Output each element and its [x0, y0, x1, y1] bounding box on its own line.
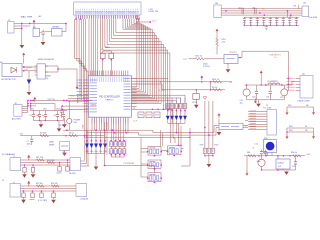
svg-text:C3: C3: [30, 115, 32, 117]
svg-text:C10: C10: [238, 8, 241, 10]
cap C20: [252, 85, 258, 100]
arrow j9: [27, 181, 30, 186]
wires J2 to regulator: [14, 24, 66, 29]
resistor R5 vertical: [216, 38, 219, 55]
label AC small: [0, 61, 3, 64]
svg-text:100n: 100n: [27, 143, 31, 145]
resistor R56: [291, 152, 301, 157]
label R8: [212, 79, 219, 81]
svg-text:J8 GPS: J8 GPS: [69, 173, 76, 175]
capacitor C7: [60, 111, 65, 121]
label 4N35 part: [46, 76, 52, 81]
svg-text:B1: B1: [230, 82, 233, 84]
svg-text:TX2: TX2: [183, 59, 188, 61]
wires U5 to J5 fan: [243, 121, 248, 128]
connector J1 (30-pin header): [74, 2, 142, 15]
MCU top pin labels: [91, 77, 128, 82]
resistor R13: [36, 183, 44, 187]
svg-text:74LVC1G: 74LVC1G: [229, 52, 237, 54]
svg-text:OPTO: OPTO: [192, 102, 198, 104]
vcc arrow u5: [218, 113, 221, 124]
svg-text:USB-B CONN: USB-B CONN: [298, 101, 311, 103]
wire U2 out: [62, 23, 67, 32]
J9 hang cap4: [51, 190, 56, 203]
svg-text:AC-DETECT IN: AC-DETECT IN: [2, 78, 17, 81]
label LT3 TEC: [38, 200, 48, 202]
svg-text:1u: 1u: [42, 115, 44, 117]
svg-text:WALL PWR: WALL PWR: [21, 15, 33, 18]
power VCC arrow: [33, 20, 36, 25]
svg-text:NC: NC: [305, 130, 308, 132]
capacitor C3: [30, 111, 36, 121]
bottom pin drops: [92, 122, 128, 141]
resistor R2: [40, 132, 49, 137]
wire corner j4: [298, 5, 300, 10]
connector J6 AC header: [12, 103, 22, 121]
svg-text:J6: J6: [15, 103, 17, 105]
rail y130: [87, 126, 219, 133]
dot r row: [65, 135, 87, 137]
wires box to opto: [22, 67, 37, 71]
J6 wires: [22, 101, 28, 113]
label PIC-RESET red: [124, 163, 136, 165]
label VCC at J1 right: [149, 21, 157, 23]
svg-text:PIC/RESET: PIC/RESET: [124, 163, 136, 165]
rail y132: [87, 128, 219, 136]
resistor pack RP2: [166, 98, 187, 109]
svg-text:C11: C11: [252, 8, 255, 10]
diode D2 inside box: [11, 67, 17, 73]
usb filter bottom rail: [247, 100, 285, 103]
bus wires J1 middle group to MCU top: [89, 19, 98, 76]
verticals feeding JB2: [178, 123, 182, 146]
resistor R10: [196, 58, 205, 61]
regulator U2 box: [52, 27, 63, 36]
rail y130 left ext: [63, 129, 87, 131]
label SCI HEADER: [2, 153, 15, 156]
svg-text:R10 1k: R10 1k: [196, 56, 202, 58]
test bracket TB1: [287, 105, 314, 111]
resistor R9: [213, 89, 222, 92]
usb filter rail: [245, 84, 293, 86]
wire VCC arrow stem: [33, 25, 35, 28]
node dots under J1: [75, 18, 140, 20]
svg-text:VER 0.1: VER 0.1: [105, 100, 114, 102]
bus wires J1 left group: [75, 19, 88, 166]
TB2 arrows: [286, 134, 316, 139]
MCU right pins: [132, 78, 137, 109]
svg-text:1 LP: 1 LP: [133, 121, 138, 123]
svg-text:C22: C22: [280, 97, 283, 99]
svg-text:R2 10k: R2 10k: [40, 132, 46, 134]
connector J7: [10, 158, 21, 171]
dots bus y109: [152, 108, 170, 110]
arrow reg left: [246, 171, 249, 176]
usb bus dots: [287, 78, 289, 91]
MCU bottom pin labels: [92, 118, 128, 123]
bus staircase J1 right group: [101, 19, 170, 109]
svg-text:10u: 10u: [36, 115, 39, 117]
LED row labels: [86, 150, 107, 152]
label A red: [160, 81, 162, 84]
label wall power: [21, 15, 42, 18]
MCU right pin labels: [124, 78, 131, 109]
cap C23 electrolytic: [257, 156, 266, 170]
vertical x104: [104, 122, 106, 166]
wire U6 in/out: [278, 156, 290, 159]
svg-text:4.7k: 4.7k: [222, 42, 226, 44]
MCU left outside net labels: [77, 80, 83, 95]
resistor R57: [247, 152, 256, 157]
cap row rails: [244, 11, 299, 25]
rail dots: [63, 100, 88, 102]
J7 hang cap2: [31, 164, 36, 178]
resistor R11: [36, 157, 44, 161]
svg-text:1k: 1k: [305, 126, 307, 128]
dot bypass: [204, 127, 210, 136]
svg-text:VCC 5V: VCC 5V: [48, 99, 56, 101]
J5 pin wires with red labels: [248, 111, 267, 129]
inductor L1: [268, 83, 280, 85]
svg-text:FB2: FB2: [247, 152, 250, 154]
label LM35: [49, 142, 55, 147]
ground G7: [192, 102, 199, 108]
label AC detect: [2, 78, 17, 81]
svg-text:10u: 10u: [240, 103, 243, 105]
vertical link AB: [210, 81, 212, 91]
capacitor C1: [40, 30, 45, 37]
LED row D4-D8: [85, 130, 107, 153]
wire net A: [165, 81, 232, 83]
label U4 red: [229, 52, 237, 54]
rail R row: [20, 135, 105, 137]
svg-text:R8 4.7k: R8 4.7k: [212, 79, 219, 81]
J7 hang cap3: [57, 162, 62, 173]
vcc arrow u4: [216, 29, 219, 39]
TB1 arrows: [286, 110, 316, 115]
jumper block JB1: [147, 146, 162, 156]
wire gnd drop: [21, 24, 23, 45]
MCU left long wires: [62, 96, 89, 111]
usb connector J10: [298, 73, 314, 102]
connector J2 power jack: [8, 20, 15, 33]
svg-text:VCC: VCC: [152, 21, 157, 23]
svg-text:R5.6: R5.6: [222, 39, 226, 41]
decoupling cap C8: [59, 105, 88, 127]
svg-text:C20: C20: [252, 96, 255, 98]
regulator U6 box: [276, 159, 290, 169]
ground G3: [27, 92, 32, 95]
AC detect input box: [2, 64, 22, 77]
label 5V0 red: [20, 134, 24, 136]
ground G2: [41, 37, 46, 46]
label 4N35 ISO: [38, 58, 54, 61]
arrow PWR detect: [76, 84, 79, 89]
vertical x190: [181, 128, 191, 166]
LED S1 box: [264, 140, 277, 153]
svg-text:C21: C21: [266, 96, 269, 98]
ground G13: [62, 153, 67, 156]
bypass rail: [204, 155, 214, 164]
resistor R12: [47, 160, 55, 164]
rail y137: [84, 137, 191, 139]
small filter boxes under MCU right: [138, 112, 160, 118]
arrow ttl: [254, 98, 257, 103]
reg bottom rail: [261, 169, 296, 171]
verticals to jumper blocks: [171, 109, 176, 143]
MCU U1 title: [99, 96, 120, 101]
svg-text:(RED): (RED): [91, 105, 97, 107]
J8 wires right: [81, 161, 90, 166]
wire J1 right to VCC: [137, 15, 151, 22]
cap bank labels: [30, 109, 60, 111]
svg-text:LM35: LM35: [49, 142, 54, 144]
dgnd marker: [203, 97, 206, 100]
svg-text:(1): (1): [46, 78, 49, 80]
svg-text:100u: 100u: [257, 161, 261, 163]
svg-text:LM7805: LM7805: [52, 27, 60, 29]
wire net RX: [168, 89, 225, 91]
svg-text:J30: J30: [215, 3, 218, 5]
svg-text:(1x4 HDR): (1x4 HDR): [309, 17, 318, 19]
svg-text:3v3: 3v3: [278, 166, 281, 168]
J1 pin net labels: [76, 16, 138, 18]
sensor Q1 box: [60, 142, 70, 153]
label TX red: [183, 59, 188, 61]
svg-text:J41: J41: [303, 2, 306, 4]
svg-text:C24: C24: [292, 166, 295, 168]
opto LED D9: [193, 89, 200, 105]
MCU U1 box: [88, 76, 131, 117]
label J1 VCC note: [149, 9, 159, 13]
connector J8: [69, 158, 81, 175]
svg-text:100n: 100n: [43, 109, 47, 111]
label R5: [222, 39, 226, 44]
LED S1 lens: [266, 142, 275, 151]
labels series caps: [238, 8, 266, 11]
rs232 pack U5: [219, 124, 243, 130]
pwr cluster arrows: [32, 97, 37, 108]
svg-text:D/R: D/R: [293, 6, 297, 8]
ground G12b: [62, 118, 67, 128]
caps above reg wire: [260, 150, 267, 156]
dots L1: [246, 84, 283, 86]
bypass trio labels: [200, 144, 219, 146]
connector J3: [214, 3, 221, 18]
label vcc 5v: [48, 99, 56, 101]
svg-text:NC: NC: [306, 105, 309, 107]
svg-text:J10: J10: [302, 73, 306, 75]
LED row rail: [87, 153, 105, 166]
capacitor C5: [42, 111, 47, 121]
bypass trio caps: [203, 147, 214, 156]
svg-text:1.8: 1.8: [274, 57, 276, 59]
label L1: [267, 81, 278, 83]
net label PWM red: [91, 105, 97, 107]
label 1LP red: [133, 121, 138, 123]
ground G1: [20, 45, 25, 49]
svg-text:LM1117: LM1117: [278, 163, 286, 165]
connector J10b: [76, 184, 88, 201]
verticals feeding JB1: [161, 130, 163, 146]
vcc arrow mid: [200, 75, 203, 82]
J9 hang cap3: [40, 190, 43, 197]
svg-text:J9: J9: [2, 180, 4, 182]
reg input wire: [244, 155, 305, 157]
VCC arrow node: [22, 53, 25, 64]
resistor R8: [213, 81, 222, 84]
svg-text:100n: 100n: [30, 109, 34, 111]
svg-text:SCI HEADER: SCI HEADER: [2, 153, 15, 156]
node dots opto: [23, 66, 25, 72]
svg-text:R14 10k: R14 10k: [51, 183, 58, 185]
capacitor C6: [54, 111, 60, 121]
label under J5: [264, 138, 267, 140]
svg-text:GND: GND: [83, 124, 85, 129]
label S1: [252, 144, 258, 150]
svg-text:LED: LED: [74, 122, 78, 124]
svg-text:R52: R52: [288, 105, 291, 107]
wire bus y109: [134, 107, 173, 110]
wires into jumper blocks: [141, 137, 184, 177]
svg-text:100n: 100n: [56, 109, 60, 111]
svg-text:R56 1k: R56 1k: [291, 152, 297, 154]
ground G8: [256, 104, 261, 107]
svg-text:5V0: 5V0: [71, 95, 74, 97]
connector J4: [302, 2, 318, 19]
J7 hang cap1: [22, 164, 27, 178]
wire reg left drop: [246, 156, 248, 172]
dots above diode row 2: [167, 110, 186, 112]
svg-text:5V0: 5V0: [20, 134, 24, 136]
label U5 red: [245, 126, 247, 128]
svg-text:R54: R54: [289, 130, 292, 132]
svg-text:TEMP: TEMP: [49, 144, 55, 146]
crystal Y1: [100, 47, 113, 76]
jumper block JB4: [147, 173, 162, 183]
opto pins: [35, 66, 49, 75]
J9 wires: [14, 182, 76, 192]
label R9: [212, 87, 217, 89]
rail VCC 5V: [31, 100, 93, 102]
label 150ohm: [203, 64, 210, 69]
label B red: [230, 82, 233, 84]
wire TX2 from MCU: [132, 77, 169, 79]
diode row 2 rail: [168, 123, 185, 133]
test bracket TB2: [286, 126, 313, 135]
wire filter to usb: [292, 82, 296, 86]
wire reset net: [105, 166, 155, 173]
svg-text:A_RX1: A_RX1: [159, 89, 166, 92]
vertical x107: [106, 122, 108, 155]
wire TX to U4: [189, 58, 225, 60]
MCU bottom pins: [92, 117, 128, 122]
label A_RX red: [159, 89, 166, 92]
wire RX step from MCU: [132, 84, 169, 90]
svg-text:R12 RXD: R12 RXD: [47, 160, 55, 162]
zener D3 blue: [27, 71, 31, 92]
svg-text:(LT-3 TEC): (LT-3 TEC): [38, 200, 48, 202]
label R10: [196, 56, 202, 58]
wire C1 to U2: [45, 31, 52, 33]
ground G9: [217, 130, 222, 136]
J1 pin stubs: [76, 15, 138, 19]
svg-text:R3 1k: R3 1k: [69, 132, 74, 134]
wire A from MCU: [132, 80, 166, 82]
svg-text:R9 1k: R9 1k: [212, 87, 217, 89]
svg-text:X2: X2: [245, 126, 247, 128]
label J9: [2, 180, 4, 182]
MCU top pins: [91, 71, 128, 76]
buffer U4 box: [224, 55, 238, 64]
RN1 bottom rail: [111, 156, 124, 158]
label GND vertical red: [83, 124, 85, 129]
bypass trio verticals: [205, 101, 213, 147]
vcc arrow usb: [260, 71, 263, 86]
cap bank bottom rail: [34, 120, 64, 122]
wire U4 to usb detect: [238, 51, 288, 78]
svg-text:C7: C7: [60, 115, 62, 117]
svg-text:PIC-CONTROLLER: PIC-CONTROLLER: [99, 96, 120, 98]
wires MCU to diode columns: [132, 95, 186, 103]
rail2: [31, 103, 56, 105]
connector J9: [10, 184, 21, 198]
capacitor row C12-C18: [243, 17, 298, 26]
svg-text:R11 TXD: R11 TXD: [36, 157, 44, 159]
svg-text:R_PULL: R_PULL: [203, 66, 210, 68]
J9 hang cap2: [30, 190, 35, 199]
J7 hang cap4: [66, 159, 69, 171]
svg-text:ACC HDR: ACC HDR: [12, 118, 21, 121]
usb pins: [296, 79, 301, 91]
capacitor C4: [36, 111, 41, 121]
ground hatch: [265, 25, 269, 29]
label DR red: [293, 6, 297, 8]
MCU left pins: [84, 80, 89, 112]
MCU left pin labels: [89, 80, 97, 112]
label POWERON red: [25, 67, 33, 71]
ground G10: [284, 172, 289, 175]
J7 wires: [14, 156, 70, 166]
ground G12: [57, 121, 62, 132]
svg-text:R53: R53: [289, 126, 292, 128]
diode D1 box: [33, 27, 40, 37]
reg wire dots: [258, 155, 291, 157]
usb pin labels red: [287, 78, 295, 90]
cap C24: [292, 156, 297, 170]
resistor R3: [69, 132, 78, 137]
series caps K2: [255, 8, 257, 15]
label USB DETECT red: [270, 55, 282, 60]
svg-text:+5: +5: [252, 148, 254, 150]
cap C2: [27, 136, 34, 146]
label J5 TTL: [263, 105, 272, 109]
cap C22 electrolytic: [280, 85, 288, 100]
connector J5: [267, 110, 277, 136]
jumper block JB3: [147, 160, 162, 170]
cap bank top rail: [31, 104, 68, 111]
ground G6: [226, 64, 231, 73]
wires J3 to J4: [221, 9, 302, 15]
J9 hang cap1: [21, 190, 26, 203]
svg-text:D15: D15: [255, 144, 258, 146]
label POWER LED: [74, 119, 81, 124]
svg-text:+9V: +9V: [38, 16, 42, 18]
svg-text:(1N4148): (1N4148): [81, 199, 89, 201]
junction dots power input: [21, 23, 31, 30]
svg-text:TTL CON: TTL CON: [263, 107, 272, 109]
wire pwr detect drop: [76, 69, 78, 85]
